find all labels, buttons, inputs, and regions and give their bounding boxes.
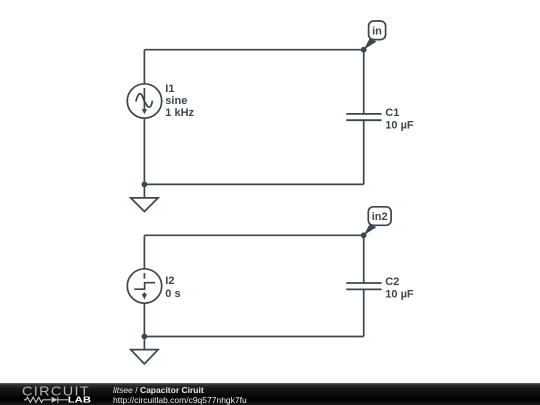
svg-text:0 s: 0 s xyxy=(165,288,180,300)
wire ground stem top circuit xyxy=(143,184,145,198)
svg-text:I2: I2 xyxy=(165,275,174,287)
footer url text xyxy=(113,395,247,405)
wire ground stem bottom circuit xyxy=(143,337,145,350)
svg-text:I1: I1 xyxy=(165,83,174,95)
wire top circuit: bottom horizontal xyxy=(144,183,363,185)
svg-text:C2: C2 xyxy=(385,276,399,288)
svg-text:in2: in2 xyxy=(372,211,388,223)
svg-text:10 µF: 10 µF xyxy=(385,289,414,301)
current source I2 xyxy=(127,269,161,303)
node in flag xyxy=(364,21,386,50)
wire bottom circuit: right vertical upper xyxy=(363,235,365,283)
wire bottom circuit: top horizontal xyxy=(144,234,363,236)
node in2 flag xyxy=(364,207,391,236)
wire bottom circuit: left vertical upper xyxy=(143,235,145,268)
junction dot top circuit xyxy=(142,182,148,188)
wire bottom circuit: right vertical lower xyxy=(363,289,365,336)
ground bottom circuit xyxy=(131,350,158,364)
capacitor C2 xyxy=(346,283,381,289)
wire top circuit: left vertical upper xyxy=(143,50,145,84)
svg-text:LAB: LAB xyxy=(68,396,91,405)
current source I1 xyxy=(127,84,161,118)
CircuitLab logo xyxy=(0,384,100,405)
wire bottom circuit: left vertical lower xyxy=(143,303,145,336)
svg-text:in: in xyxy=(372,26,382,38)
wire top circuit: right vertical upper xyxy=(363,50,365,114)
wire top circuit: right vertical lower xyxy=(363,120,365,184)
ground top circuit xyxy=(131,198,158,212)
wire top circuit: left vertical lower xyxy=(143,118,145,184)
footer bar xyxy=(0,383,540,405)
junction dot bottom circuit xyxy=(142,334,148,340)
capacitor C1 xyxy=(346,114,381,120)
node dot in xyxy=(361,47,367,53)
node dot in2 xyxy=(361,232,367,238)
arrowhead of I1 xyxy=(142,109,147,114)
footer title text xyxy=(113,385,204,395)
wire bottom circuit: bottom horizontal xyxy=(144,336,363,338)
svg-text:C1: C1 xyxy=(385,107,399,119)
svg-text:1 kHz: 1 kHz xyxy=(165,107,194,119)
wire top circuit: top horizontal xyxy=(144,49,363,51)
arrowhead of I2 xyxy=(142,294,147,300)
svg-text:10 µF: 10 µF xyxy=(385,119,414,131)
svg-text:sine: sine xyxy=(165,95,187,107)
